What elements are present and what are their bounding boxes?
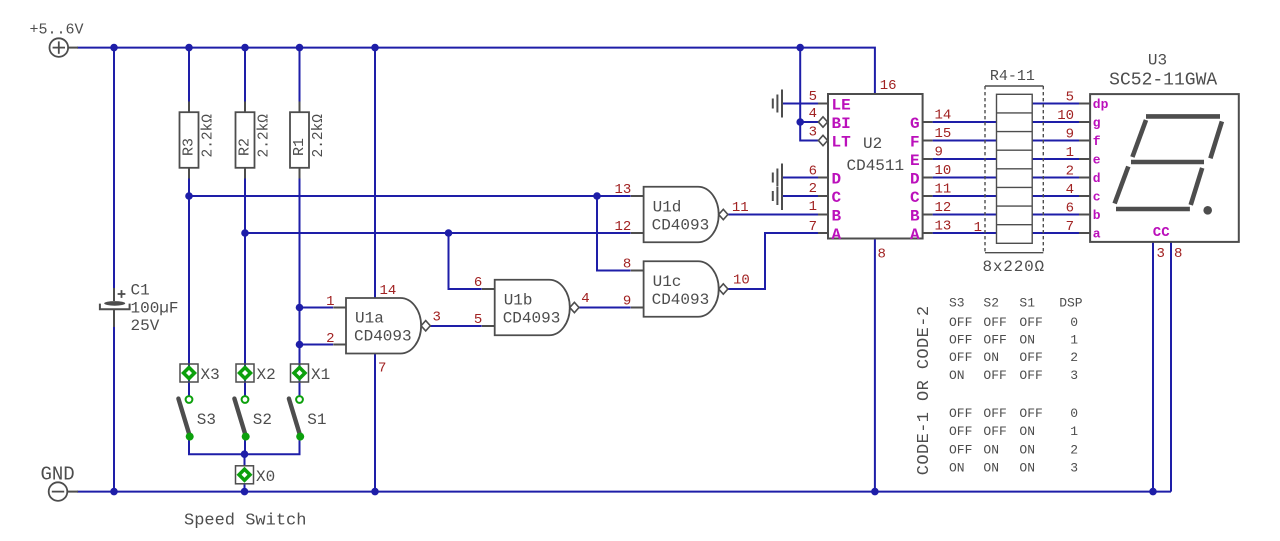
wire U2 output row 3 [933, 158, 997, 160]
wire D to ground [782, 177, 818, 179]
capacitor C1 [100, 282, 179, 336]
svg-text:7: 7 [1066, 219, 1074, 235]
svg-text:12: 12 [614, 219, 631, 235]
wire LE to ground [782, 103, 818, 105]
svg-text:ON: ON [983, 442, 999, 457]
svg-text:D: D [832, 171, 842, 189]
svg-text:10: 10 [733, 273, 750, 289]
svg-text:S3: S3 [197, 411, 216, 429]
wire C to ground [782, 195, 818, 197]
svg-text:OFF: OFF [949, 424, 972, 439]
svg-text:CD4093: CD4093 [652, 216, 710, 234]
svg-text:OFF: OFF [1019, 350, 1042, 365]
svg-text:S3: S3 [949, 295, 965, 310]
svg-text:0: 0 [1070, 315, 1078, 330]
svg-text:2.2kΩ: 2.2kΩ [311, 114, 327, 158]
svg-text:ON: ON [1019, 461, 1035, 476]
svg-text:U1b: U1b [504, 291, 533, 309]
wire R2 column upper [244, 48, 246, 102]
wire RN to display row 3 [1032, 158, 1079, 160]
svg-text:SC52-11GWA: SC52-11GWA [1109, 70, 1217, 90]
svg-text:8x220Ω: 8x220Ω [983, 258, 1045, 276]
wire U2 output row 2 [933, 140, 997, 142]
wire U1c out to U2 pin A [728, 233, 818, 289]
junction [296, 341, 304, 349]
wire display pin 8 down [1170, 242, 1172, 492]
svg-text:U1a: U1a [355, 310, 384, 328]
wire RN to display row 6 [1032, 214, 1079, 216]
svg-text:10: 10 [935, 163, 952, 179]
svg-text:9: 9 [1066, 126, 1074, 142]
svg-text:U1c: U1c [653, 273, 682, 291]
junction [241, 450, 249, 458]
svg-text:6: 6 [474, 275, 482, 291]
svg-text:1: 1 [1070, 424, 1078, 439]
svg-text:ON: ON [1019, 424, 1035, 439]
ground symbol GND [41, 464, 79, 501]
svg-text:B: B [910, 208, 920, 226]
resistor network R4-11 8x220ohm [974, 68, 1045, 276]
junction [296, 304, 304, 312]
svg-text:25V: 25V [131, 317, 160, 335]
svg-text:C: C [832, 189, 842, 207]
svg-text:2.2kΩ: 2.2kΩ [201, 114, 217, 158]
junction [110, 44, 118, 52]
svg-text:13: 13 [935, 219, 952, 235]
svg-text:5: 5 [809, 89, 817, 105]
svg-text:B: B [832, 208, 842, 226]
wire R3 column lower to X3 [188, 179, 190, 397]
svg-text:10: 10 [1057, 108, 1074, 124]
svg-text:14: 14 [380, 283, 397, 299]
svg-text:1: 1 [809, 199, 817, 215]
wire R1 column upper [299, 48, 301, 102]
svg-text:2: 2 [1070, 442, 1078, 457]
svg-text:GND: GND [41, 464, 75, 486]
svg-text:BI: BI [832, 115, 851, 133]
ground symbol at U2 D [773, 164, 782, 192]
svg-text:c: c [1093, 190, 1101, 205]
svg-text:16: 16 [880, 78, 897, 94]
svg-text:13: 13 [614, 182, 631, 198]
svg-text:LT: LT [832, 134, 852, 152]
svg-text:OFF: OFF [1019, 406, 1042, 421]
junction [871, 488, 879, 496]
op-amp-style NAND gate U1a [326, 283, 441, 376]
wire R1 column lower to X1 [299, 179, 301, 397]
wire S2 to common [244, 440, 246, 454]
switch S1 [289, 396, 327, 441]
svg-text:OFF: OFF [983, 315, 1006, 330]
junction [185, 44, 193, 52]
junction [371, 44, 379, 52]
svg-text:ON: ON [983, 350, 999, 365]
svg-text:X3: X3 [201, 366, 220, 384]
junction [296, 44, 304, 52]
svg-text:C: C [910, 189, 920, 207]
svg-text:OFF: OFF [949, 315, 972, 330]
wire U2 output row 7 [933, 232, 997, 234]
wire U1 power pin 7 [374, 354, 376, 492]
resistor R1 [290, 102, 327, 179]
resistor R2 [236, 102, 273, 179]
junction [796, 44, 804, 52]
wire switch common [189, 440, 300, 454]
svg-text:2: 2 [809, 181, 817, 197]
op-amp-style NAND gate U1b [474, 275, 590, 335]
svg-text:2: 2 [1070, 350, 1078, 365]
wire to U1a pin 1 [300, 307, 334, 309]
wire RN to display row 2 [1032, 140, 1079, 142]
svg-text:CD4093: CD4093 [652, 291, 710, 309]
svg-text:4: 4 [581, 291, 589, 307]
wire branch to U1c pin 8 [597, 196, 631, 271]
svg-text:5: 5 [1066, 89, 1074, 105]
svg-text:9: 9 [935, 145, 943, 161]
svg-text:CODE-1 OR CODE-2: CODE-1 OR CODE-2 [915, 306, 934, 476]
svg-text:d: d [1093, 171, 1101, 186]
svg-text:ON: ON [949, 368, 965, 383]
svg-text:15: 15 [935, 126, 952, 142]
ground symbol at U2 LE [773, 90, 782, 118]
svg-text:5: 5 [474, 312, 482, 328]
wire U2 output row 1 [933, 121, 997, 123]
switch S3 [178, 396, 216, 441]
svg-text:a: a [1093, 227, 1101, 242]
svg-text:+5..6V: +5..6V [30, 22, 84, 39]
svg-text:OFF: OFF [983, 406, 1006, 421]
svg-text:3: 3 [1157, 246, 1165, 262]
svg-text:100µF: 100µF [131, 299, 179, 317]
svg-text:S2: S2 [983, 295, 999, 310]
junction [1149, 488, 1157, 496]
junction [796, 118, 804, 126]
svg-text:8: 8 [878, 247, 886, 263]
svg-text:e: e [1093, 153, 1101, 168]
svg-text:12: 12 [935, 200, 952, 216]
svg-text:X0: X0 [256, 468, 275, 486]
svg-text:dp: dp [1093, 97, 1109, 112]
junction [445, 229, 453, 237]
wire display pin 3 down [1152, 242, 1154, 492]
svg-text:CD4093: CD4093 [354, 328, 412, 346]
op-amp-style NAND gate U1c [623, 257, 750, 317]
svg-text:3: 3 [809, 125, 817, 141]
junction [241, 44, 249, 52]
connector X0 [236, 466, 276, 486]
svg-text:f: f [1093, 134, 1101, 149]
connector X1 [291, 364, 331, 384]
svg-text:C1: C1 [131, 282, 150, 300]
svg-text:4: 4 [809, 106, 817, 122]
svg-text:11: 11 [935, 182, 952, 198]
svg-text:A: A [832, 226, 842, 244]
svg-text:OFF: OFF [983, 333, 1006, 348]
svg-text:OFF: OFF [949, 406, 972, 421]
svg-text:U1d: U1d [653, 198, 682, 216]
svg-text:OFF: OFF [983, 368, 1006, 383]
wire GND rail [77, 491, 1171, 493]
wire U1 power pin 14 [374, 48, 376, 298]
wire RN to display row 7 [1032, 232, 1079, 234]
junction [110, 488, 118, 496]
wire U2 pin 8 to GND rail [874, 239, 876, 492]
power symbol +5..6V [30, 22, 84, 57]
wire R2 column lower to X2 [244, 179, 246, 397]
wire C1 to GND rail [113, 327, 115, 492]
svg-text:OFF: OFF [949, 333, 972, 348]
svg-text:14: 14 [935, 108, 952, 124]
svg-text:X2: X2 [257, 366, 276, 384]
7-segment display U3 SC52-11GWA [1057, 51, 1239, 262]
svg-text:1: 1 [1070, 333, 1078, 348]
svg-text:CD4511: CD4511 [847, 157, 905, 175]
wire net to U1d pin 13 [189, 195, 631, 197]
wire RN to display row 4 [1032, 177, 1079, 179]
svg-text:CC: CC [1153, 225, 1170, 241]
svg-text:U2: U2 [863, 135, 882, 153]
switch S2 [234, 396, 272, 441]
svg-text:G: G [910, 115, 920, 133]
svg-text:S2: S2 [253, 411, 272, 429]
svg-text:OFF: OFF [1019, 315, 1042, 330]
svg-text:8: 8 [623, 257, 631, 273]
wire switch X2 to S2 [244, 382, 246, 396]
wire VCC left vertical to C1 [113, 48, 115, 289]
op-amp-style NAND gate U1d [614, 182, 748, 242]
svg-text:2: 2 [1066, 163, 1074, 179]
svg-text:DSP: DSP [1059, 295, 1083, 310]
svg-text:E: E [910, 152, 920, 170]
svg-text:3: 3 [433, 310, 441, 326]
wire U2 output row 6 [933, 214, 997, 216]
svg-text:2.2kΩ: 2.2kΩ [257, 114, 273, 158]
wire switch X1 to S1 [299, 382, 301, 396]
connector X3 [180, 364, 220, 384]
svg-text:OFF: OFF [1019, 368, 1042, 383]
wire VCC top rail [77, 48, 875, 95]
svg-text:3: 3 [1070, 368, 1078, 383]
wire RN to display row 0 [1032, 103, 1079, 105]
wire R3 column upper [188, 48, 190, 102]
svg-text:1: 1 [1066, 145, 1074, 161]
svg-text:ON: ON [1019, 442, 1035, 457]
svg-text:S1: S1 [1019, 295, 1035, 310]
svg-text:A: A [910, 226, 920, 244]
svg-text:OFF: OFF [949, 442, 972, 457]
svg-text:6: 6 [1066, 200, 1074, 216]
svg-text:S1: S1 [307, 411, 326, 429]
svg-text:9: 9 [623, 294, 631, 310]
svg-text:g: g [1093, 116, 1101, 131]
svg-text:LE: LE [832, 97, 851, 115]
svg-text:1: 1 [326, 294, 334, 310]
svg-text:b: b [1093, 208, 1101, 223]
wire BI LT net [800, 48, 818, 141]
wire U1b out to U1c pin 9 [579, 307, 631, 309]
svg-text:0: 0 [1070, 406, 1078, 421]
svg-text:6: 6 [809, 163, 817, 179]
junction [185, 192, 193, 200]
svg-text:X1: X1 [311, 366, 330, 384]
svg-text:U3: U3 [1148, 51, 1167, 69]
wire X0 to GND rail [244, 483, 246, 492]
wire U1d out to U2 pin B [728, 214, 818, 216]
svg-text:OFF: OFF [983, 424, 1006, 439]
svg-text:1: 1 [974, 220, 982, 236]
svg-text:11: 11 [732, 200, 749, 216]
svg-text:7: 7 [378, 361, 386, 377]
svg-text:R3: R3 [181, 138, 198, 156]
svg-text:ON: ON [983, 461, 999, 476]
svg-text:7: 7 [809, 219, 817, 235]
svg-text:ON: ON [949, 461, 965, 476]
svg-text:8: 8 [1174, 246, 1182, 262]
wire U2 output row 4 [933, 177, 997, 179]
wire to BI diamond [800, 121, 818, 123]
IC U2 CD4511 [809, 78, 952, 263]
wire RN to display row 1 [1032, 121, 1079, 123]
svg-text:3: 3 [1070, 461, 1078, 476]
svg-text:4: 4 [1066, 182, 1074, 198]
wire X0 link [244, 454, 246, 466]
svg-text:CD4093: CD4093 [503, 309, 561, 327]
svg-text:R1: R1 [291, 138, 308, 156]
svg-text:2: 2 [326, 331, 334, 347]
connector X2 [236, 364, 276, 384]
junction [241, 229, 249, 237]
svg-text:F: F [910, 134, 920, 152]
wire to U1a pin 2 [300, 344, 334, 346]
junction [241, 488, 249, 496]
wire U2 output row 5 [933, 195, 997, 197]
wire net to U1d pin 12 [245, 232, 631, 234]
junction [371, 488, 379, 496]
svg-text:R2: R2 [237, 138, 254, 156]
svg-text:D: D [910, 171, 920, 189]
svg-text:OFF: OFF [949, 350, 972, 365]
wire U1a out to U1b pin 5 [430, 325, 482, 327]
wire branch to U1b pin 6 [449, 233, 482, 289]
wire switch X3 to S3 [188, 382, 190, 396]
ground symbol at U2 C [773, 182, 782, 210]
svg-text:Speed Switch: Speed Switch [184, 512, 306, 531]
junction [593, 192, 601, 200]
svg-text:ON: ON [1019, 333, 1035, 348]
svg-text:R4-11: R4-11 [990, 68, 1035, 85]
resistor R3 [180, 102, 217, 179]
truth table [949, 295, 1083, 475]
wire RN to display row 5 [1032, 195, 1079, 197]
